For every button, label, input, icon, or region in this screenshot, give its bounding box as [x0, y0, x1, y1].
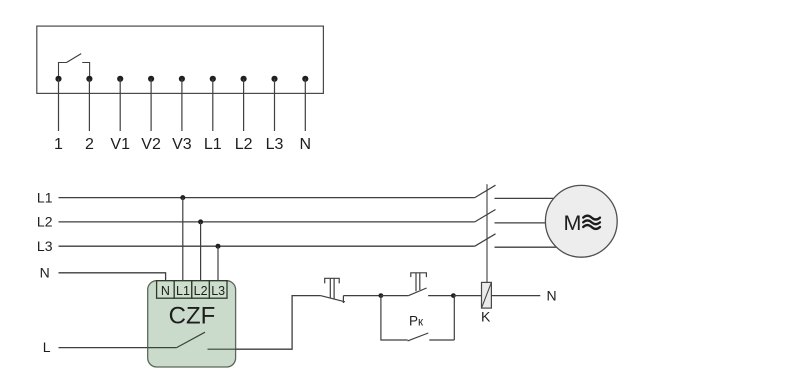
- svg-text:M: M: [564, 211, 582, 235]
- svg-text:L3: L3: [211, 284, 225, 298]
- svg-text:L3: L3: [266, 136, 284, 153]
- svg-text:N: N: [547, 288, 557, 304]
- node A: [379, 293, 384, 298]
- svg-text:N: N: [161, 284, 170, 298]
- CZF terminal L3: [209, 281, 227, 299]
- node tap L3: [216, 244, 221, 249]
- motor triple-tilde symbol: [583, 216, 600, 229]
- wire tap L1 down to CZF: [182, 198, 184, 281]
- node B: [451, 293, 456, 298]
- relay CZF body: [148, 281, 236, 367]
- coil K: [482, 282, 492, 308]
- terminal pin 2: [85, 76, 94, 153]
- wire N to CZF terminal: [59, 273, 166, 281]
- motor M: [545, 185, 617, 257]
- wire Pk branch up to node B: [453, 296, 455, 340]
- terminal pin 1: [54, 76, 63, 153]
- terminal pin V2: [141, 76, 161, 153]
- wire stop button to node A: [343, 295, 381, 297]
- terminal pin V3: [172, 76, 192, 153]
- svg-text:N: N: [40, 264, 50, 280]
- svg-text:V3: V3: [172, 136, 192, 153]
- wire L2 phase line: [59, 221, 475, 223]
- wire node B to coil K: [453, 295, 481, 297]
- svg-text:N: N: [300, 136, 312, 153]
- svg-text:L2: L2: [235, 136, 253, 153]
- svg-text:V2: V2: [141, 136, 161, 153]
- pushbutton stop (NC, break contact): [320, 278, 345, 303]
- terminal pin N: [300, 76, 312, 153]
- svg-text:V1: V1: [110, 136, 130, 153]
- wire CZF output to control line: [236, 296, 321, 350]
- CZF internal relay contact: [148, 332, 236, 349]
- CZF terminal L1: [174, 281, 192, 299]
- wire start button to node B: [428, 295, 453, 297]
- svg-text:L3: L3: [37, 238, 53, 254]
- wire tap L3 down to CZF: [217, 246, 219, 281]
- coil K diagonal: [482, 282, 492, 308]
- wire L1 phase line: [59, 197, 475, 199]
- svg-text:L2: L2: [37, 214, 53, 230]
- wire L3 phase line: [59, 245, 475, 247]
- CZF terminal L2: [192, 281, 210, 299]
- node tap L2: [198, 219, 203, 224]
- svg-text:L2: L2: [194, 284, 208, 298]
- CZF terminal N: [157, 281, 175, 299]
- terminal block outline (top box): [37, 26, 324, 93]
- svg-text:L1: L1: [176, 284, 190, 298]
- svg-text:L1: L1: [204, 136, 222, 153]
- wire contact L3 to motor: [495, 246, 559, 248]
- wire Pk branch (parallel to start button): [381, 296, 408, 340]
- terminal pin L3: [266, 76, 284, 153]
- relay contact inside terminal block (between pins 1 and 2): [59, 54, 90, 79]
- terminal pin L2: [235, 76, 253, 153]
- svg-text:CZF: CZF: [169, 302, 216, 329]
- svg-text:L: L: [43, 339, 51, 355]
- contactor K main contact L1: [475, 185, 496, 197]
- svg-text:Pк: Pк: [409, 314, 424, 329]
- wire node A to start button: [381, 295, 409, 297]
- terminal pin L1: [204, 76, 222, 153]
- node tap L1: [180, 195, 185, 200]
- svg-text:K: K: [481, 308, 491, 324]
- wire tap L2 down to CZF: [200, 222, 202, 281]
- wire L into CZF: [59, 347, 177, 349]
- contactor K main contact L3: [475, 234, 496, 246]
- svg-text:L1: L1: [37, 189, 53, 205]
- svg-text:1: 1: [54, 136, 63, 153]
- mechanical linkage of contactor K: [486, 184, 488, 282]
- contactor K main contact L2: [475, 210, 496, 222]
- pushbutton start (NO, make contact): [409, 273, 427, 296]
- contact Pk (NO auxiliary contact): [408, 333, 455, 341]
- wire coil K to N: [491, 295, 540, 297]
- svg-text:2: 2: [85, 136, 94, 153]
- wire contact L2 to motor: [495, 222, 551, 224]
- terminal pin V1: [110, 76, 130, 153]
- wire contact L1 to motor: [495, 197, 557, 199]
